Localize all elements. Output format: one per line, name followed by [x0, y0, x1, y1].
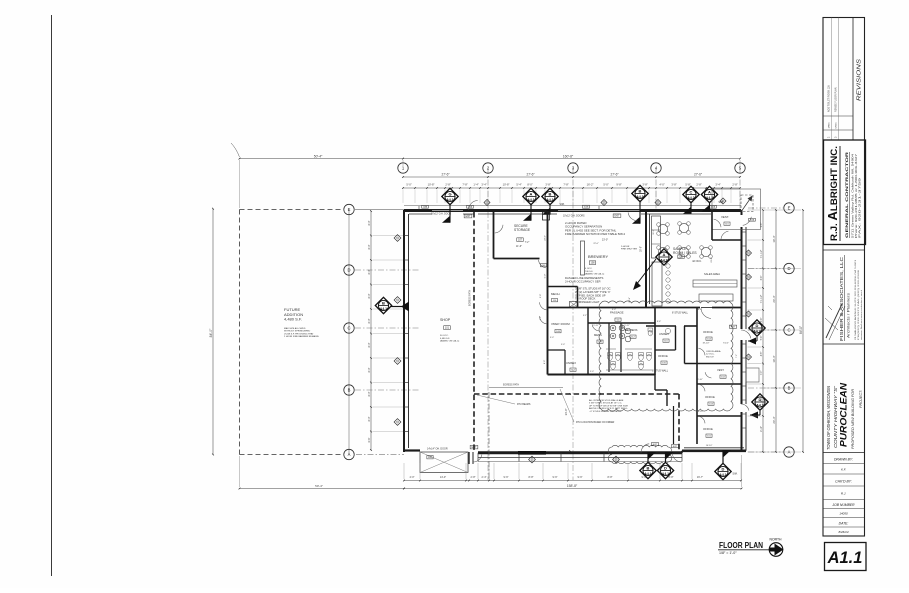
section marker B/A4.1 SIM — [542, 188, 558, 214]
wall: mech top — [548, 286, 578, 288]
wall: unisex divider — [548, 350, 566, 375]
svg-text:A: A — [530, 191, 533, 196]
wall: top exterior — [404, 209, 741, 212]
canopy slope arrow — [742, 196, 753, 211]
svg-text:RTU BEAMS: RTU BEAMS — [517, 403, 531, 406]
mech label — [551, 292, 561, 296]
door marker D/A4.1 wing — [715, 463, 731, 479]
svg-text:2′-4″: 2′-4″ — [482, 476, 487, 479]
svg-text:E: E — [788, 206, 791, 211]
svg-text:EXIT: EXIT — [465, 216, 471, 218]
leader curl top-left — [231, 143, 240, 157]
marker D/A4.2 upper — [749, 320, 765, 336]
door tag 108B — [422, 205, 429, 208]
svg-text:9′-0″: 9′-0″ — [550, 337, 554, 339]
svg-text:42 OCC.: 42 OCC. — [692, 260, 702, 263]
right dim string grid — [772, 209, 777, 453]
svg-text:STORAGE: STORAGE — [514, 228, 531, 232]
svg-text:- 6″ STUDS WHERE INDICATED: - 6″ STUDS WHERE INDICATED — [589, 410, 622, 413]
wall: top OH door opening sills — [432, 210, 640, 212]
svg-text:SIM.: SIM. — [732, 473, 737, 476]
sheet left border line — [51, 15, 53, 576]
svg-text:TO ROOF DECK: TO ROOF DECK — [575, 297, 596, 301]
svg-text:4,480 S.F.: 4,480 S.F. — [440, 338, 450, 340]
east wall door arcs — [741, 330, 751, 338]
svg-text:B: B — [348, 388, 351, 393]
svg-text:PROPOSED NEW BUILDING FOR: PROPOSED NEW BUILDING FOR — [851, 389, 855, 449]
door tag 104A — [467, 205, 474, 208]
door arc top wall brewery — [628, 212, 638, 221]
door arc sales south — [701, 308, 712, 319]
storefront diamonds — [529, 456, 536, 463]
svg-text:A4.1: A4.1 — [446, 198, 453, 202]
svg-text:20′-4″: 20′-4″ — [772, 295, 776, 302]
albright box — [824, 140, 866, 245]
svg-text:B: B — [382, 300, 385, 305]
svg-text:8′-8″: 8′-8″ — [529, 476, 534, 479]
svg-text:1/8/15: 1/8/15 — [829, 122, 831, 129]
exterior stoop right — [746, 368, 759, 382]
svg-text:R.J. ALBRIGHT INC.: R.J. ALBRIGHT INC. — [826, 146, 840, 241]
unisex label right — [659, 332, 669, 336]
svg-text:5′-10″: 5′-10″ — [697, 379, 703, 381]
svg-text:ALL INTERIOR STUD WALLS ARE: ALL INTERIOR STUD WALLS ARE — [589, 399, 624, 402]
brewery counter — [652, 216, 661, 258]
svg-text:5′-0″: 5′-0″ — [540, 294, 542, 298]
svg-text:B: B — [647, 465, 650, 470]
svg-text:SIM.: SIM. — [559, 202, 565, 206]
svg-text:REVISE FLOOR PLAN: REVISE FLOOR PLAN — [835, 87, 838, 112]
wall: core west full — [543, 211, 550, 375]
interior dim 34'-0" — [564, 393, 571, 452]
svg-text:(7,068 S.F. PROVIDED) THAT: (7,068 S.F. PROVIDED) THAT — [284, 332, 314, 335]
svg-text:5′-8″: 5′-8″ — [685, 182, 690, 186]
2-hour separation dashed vertical east — [678, 394, 680, 450]
secure storage entry door arc — [495, 225, 503, 233]
stud wall note — [589, 399, 628, 413]
revision table lines — [823, 18, 865, 141]
svg-text:A4.3: A4.3 — [636, 195, 643, 199]
svg-text:SALES AREA: SALES AREA — [704, 272, 720, 276]
svg-text:50′-4″: 50′-4″ — [314, 154, 323, 158]
brewery label — [588, 254, 608, 259]
svg-text:VEST.: VEST. — [721, 215, 729, 219]
svg-text:104B: 104B — [584, 207, 589, 209]
svg-text:5′-0″: 5′-0″ — [590, 371, 594, 373]
svg-text:A: A — [663, 252, 666, 257]
svg-text:A1.1: A1.1 — [827, 549, 863, 567]
svg-text:E: E — [348, 207, 351, 212]
wall: restroom verticals — [588, 308, 655, 376]
svg-text:8′-8″: 8′-8″ — [608, 476, 613, 479]
svg-text:W/ (2) LAYERS 5/8″ TYPE ‘X’: W/ (2) LAYERS 5/8″ TYPE ‘X’ — [575, 290, 611, 294]
svg-text:8′-0″: 8′-0″ — [368, 367, 371, 372]
svg-text:8′-0″: 8′-0″ — [368, 416, 371, 421]
canopy outline top-right — [712, 189, 761, 230]
svg-text:10′-8″: 10′-8″ — [428, 182, 435, 186]
wall: unisex south — [655, 349, 676, 351]
info rows divider — [823, 452, 865, 454]
svg-text:MAX SIZE ALLOWED: MAX SIZE ALLOWED — [284, 327, 306, 330]
left grid bubbles — [344, 204, 354, 214]
svg-text:C: C — [690, 189, 693, 194]
unisex fixtures — [648, 328, 671, 336]
left overall vertical dimension 84'-0" — [209, 208, 214, 456]
svg-text:4′-0″: 4′-0″ — [410, 476, 415, 479]
marker D/A4.2 lower — [752, 394, 768, 410]
grid dimension line 27'-6" bays — [402, 173, 741, 178]
wall: sales south / stud wall — [646, 307, 742, 309]
albright contractor — [844, 152, 850, 238]
svg-text:FIRE BARRIER NOTATION PER TABL: FIRE BARRIER NOTATION PER TABLE 508.4 — [565, 232, 625, 236]
title block outer frame — [823, 18, 865, 537]
door marker D/A4.1 bottom — [657, 462, 673, 478]
svg-text:16′-7″: 16′-7″ — [697, 476, 703, 479]
boxed label 104B — [583, 205, 590, 208]
svg-text:1′-4″: 1′-4″ — [473, 182, 478, 186]
grid centerlines dashed — [487, 168, 489, 212]
svg-text:7′-0″: 7′-0″ — [651, 331, 653, 335]
svg-text:NORTH: NORTH — [770, 538, 783, 542]
2-hour separation dashed horizontal — [474, 393, 679, 395]
left grid dash leaders — [355, 269, 420, 271]
svg-text:107: 107 — [518, 239, 523, 242]
svg-text:B: B — [549, 191, 552, 196]
west wall panel diamonds — [394, 235, 401, 242]
svg-text:7′-8″: 7′-8″ — [462, 182, 467, 186]
wall: unisex office top — [646, 325, 697, 327]
svg-text:5′-0″: 5′-0″ — [561, 344, 565, 346]
door arc top wall shop — [469, 201, 478, 211]
svg-text:14′-0″: 14′-0″ — [440, 476, 446, 479]
svg-text:23′-0″: 23′-0″ — [545, 235, 547, 241]
section marker G/A4.1 — [442, 188, 458, 222]
right grid bubbles — [784, 203, 794, 213]
interior tiny dims texture — [540, 229, 738, 447]
svg-text:7′-8″: 7′-8″ — [563, 182, 568, 186]
svg-text:A4.1: A4.1 — [546, 198, 553, 202]
svg-text:A4.3: A4.3 — [660, 258, 667, 262]
svg-text:VEST.: VEST. — [717, 368, 724, 372]
svg-text:2′-8″: 2′-8″ — [445, 182, 450, 186]
svg-text:OFFICE AREA: OFFICE AREA — [706, 350, 721, 353]
svg-text:D: D — [756, 323, 759, 328]
svg-text:84′-0″: 84′-0″ — [209, 328, 213, 337]
svg-text:EXIT: EXIT — [614, 216, 620, 218]
svg-text:7′-1 1/2″: 7′-1 1/2″ — [761, 295, 763, 304]
office 103 label — [705, 395, 715, 399]
svg-text:D: D — [787, 266, 790, 271]
svg-text:9′-1/2″: 9′-1/2″ — [723, 343, 729, 345]
svg-text:9′-6″: 9′-6″ — [642, 476, 647, 479]
svg-text:FAX: 920-231-3759: FAX: 920-231-3759 — [859, 176, 862, 238]
office area label — [706, 350, 721, 358]
svg-text:3′-8″: 3′-8″ — [545, 182, 550, 186]
svg-text:PUROCLEAN: PUROCLEAN — [839, 382, 849, 447]
grid 3 centerline through building — [572, 212, 574, 480]
svg-text:D: D — [664, 465, 667, 470]
future addition dashed outline — [240, 210, 405, 455]
svg-text:EXIT: EXIT — [731, 327, 736, 329]
svg-text:A: A — [708, 189, 711, 194]
right grid dash top — [748, 207, 783, 209]
svg-text:5′-11″: 5′-11″ — [593, 325, 598, 327]
svg-text:11′-2″: 11′-2″ — [653, 229, 655, 234]
svg-text:16′-10″: 16′-10″ — [706, 445, 713, 447]
exit box wing — [671, 445, 678, 448]
svg-text:9′-8″: 9′-8″ — [616, 182, 621, 186]
vestibule doors — [714, 219, 721, 227]
svg-text:9′-2″: 9′-2″ — [540, 316, 542, 320]
OH door bay bottom-left — [420, 452, 468, 473]
svg-text:K.F.: K.F. — [841, 468, 846, 472]
svg-text:1/8″ = 1′-0″: 1/8″ = 1′-0″ — [719, 551, 737, 555]
future addition label — [284, 307, 303, 322]
svg-text:16′x12′ O.H. DOOR: 16′x12′ O.H. DOOR — [431, 214, 451, 216]
svg-text:ABOVE CEILING W/ R-11 BATT INS: ABOVE CEILING W/ R-11 BATT INSUL. — [589, 407, 628, 410]
svg-text:4′-8″: 4′-8″ — [761, 352, 763, 357]
passage label — [610, 311, 624, 315]
svg-text:108B: 108B — [423, 206, 428, 208]
office 105 label — [658, 354, 668, 358]
RTU beams note — [517, 403, 531, 406]
svg-text:7′-1 1/2″: 7′-1 1/2″ — [761, 250, 763, 259]
svg-text:GYP BD. EACH SIDE UP: GYP BD. EACH SIDE UP — [575, 293, 606, 297]
svg-text:7′-0″: 7′-0″ — [761, 371, 763, 376]
prep room label — [552, 322, 571, 326]
unisex label left — [566, 361, 576, 365]
svg-text:9′-6″: 9′-6″ — [553, 476, 558, 479]
svg-text:18′-10″: 18′-10″ — [697, 411, 704, 413]
svg-text:22′-0″: 22′-0″ — [593, 243, 599, 245]
shop label — [440, 318, 451, 322]
svg-text:7′-2″: 7′-2″ — [736, 354, 738, 358]
svg-text:A: A — [788, 450, 791, 455]
svg-text:(BASED ON CALC): (BASED ON CALC) — [440, 340, 459, 343]
svg-text:A4.2: A4.2 — [756, 403, 763, 407]
svg-text:18′-1/2″: 18′-1/2″ — [702, 343, 709, 345]
wall: passage top — [548, 307, 647, 309]
svg-text:2-HOUR OCCUPANCY SEP.: 2-HOUR OCCUPANCY SEP. — [565, 279, 601, 283]
svg-text:3 5/8″ STEEL STUDS AT 16″ O.C.: 3 5/8″ STEEL STUDS AT 16″ O.C. — [589, 402, 623, 405]
future addition note — [284, 327, 319, 338]
svg-text:8′-0″: 8′-0″ — [368, 342, 371, 347]
wall: secure storage west — [493, 211, 495, 259]
svg-text:4,480 S.F.: 4,480 S.F. — [284, 317, 302, 322]
svg-text:C: C — [347, 326, 350, 331]
svg-text:FISHER & ASSOCIATES, LLC: FISHER & ASSOCIATES, LLC — [839, 256, 844, 341]
revisions divider — [852, 18, 854, 141]
fisher divider — [823, 249, 865, 251]
svg-text:JOB NUMBER: JOB NUMBER — [831, 503, 855, 507]
svg-text:5′-4″: 5′-4″ — [761, 336, 763, 341]
svg-text:ADD TOILET ROOM 116: ADD TOILET ROOM 116 — [828, 85, 831, 112]
svg-text:160′-8″: 160′-8″ — [563, 154, 574, 158]
svg-text:20′-4″: 20′-4″ — [772, 416, 776, 423]
wall: bottom storefront band — [478, 453, 682, 462]
svg-text:2′-8″: 2′-8″ — [732, 182, 737, 186]
svg-text:3′-8″: 3′-8″ — [671, 182, 676, 186]
svg-text:960 S.F.: 960 S.F. — [706, 356, 714, 358]
svg-text:8′-0″: 8′-0″ — [368, 391, 371, 396]
svg-text:A4.1: A4.1 — [380, 307, 387, 311]
restroom sink clusters — [610, 325, 631, 342]
toilet fixtures — [606, 349, 652, 370]
section marker A/A4.2 — [701, 186, 717, 211]
top wall window tick — [419, 206, 599, 210]
OH door label top-right — [563, 216, 585, 218]
svg-text:RTU LOCATION BASED ON ORDER: RTU LOCATION BASED ON ORDER — [576, 421, 615, 424]
egress dashed line vertical — [488, 392, 490, 481]
svg-text:9′-10″: 9′-10″ — [761, 426, 763, 432]
svg-text:2 HOUR FIRE BARRIER REMAINS: 2 HOUR FIRE BARRIER REMAINS — [284, 335, 319, 338]
fisher logo — [825, 304, 845, 340]
top sub dimension string — [402, 187, 741, 189]
RTU location note — [576, 421, 615, 424]
left witness lines — [373, 236, 404, 432]
wall: vestibule — [712, 210, 742, 240]
top witness lines — [240, 160, 741, 208]
egress path leader horizontal — [489, 387, 563, 389]
svg-text:8′-0″: 8′-0″ — [368, 220, 371, 225]
svg-text:11′-6″: 11′-6″ — [516, 245, 522, 248]
section marker A/A4.3 interior — [656, 249, 672, 265]
svg-text:6′-4″: 6′-4″ — [761, 318, 763, 323]
svg-text:27′-6″: 27′-6″ — [694, 173, 703, 177]
right grid dash leaders — [748, 268, 783, 270]
svg-text:158′-8″: 158′-8″ — [567, 484, 578, 488]
svg-text:DATE:: DATE: — [839, 522, 849, 526]
wall: office wing west — [654, 375, 656, 391]
wall: east exterior — [742, 210, 747, 451]
secure storage door arc — [539, 260, 546, 268]
office 104 label — [703, 330, 713, 334]
section marker A/A4.1 — [523, 188, 539, 220]
svg-text:A: A — [348, 452, 351, 457]
svg-text:8′-0″: 8′-0″ — [544, 360, 546, 364]
wall: offices column — [685, 308, 742, 445]
svg-text:REVISIONS: REVISIONS — [857, 58, 863, 101]
sample room label — [673, 247, 697, 255]
2-hour separation dashed line — [473, 212, 475, 452]
svg-text:8′-6″: 8′-6″ — [657, 321, 661, 323]
svg-text:UNISEX: UNISEX — [566, 361, 576, 365]
svg-text:9′-6″: 9′-6″ — [504, 476, 509, 479]
x-box fixture mech wall — [570, 302, 579, 308]
grid bubbles 1-5 — [398, 163, 408, 173]
svg-text:3′-4″: 3′-4″ — [481, 182, 486, 186]
svg-text:4′-0″: 4′-0″ — [612, 309, 616, 311]
stud construction note — [575, 287, 611, 305]
mens label — [594, 333, 602, 337]
canopy dashed square — [741, 195, 753, 212]
wall: top outer face line — [404, 205, 741, 207]
east wall door gaps — [739, 329, 748, 412]
svg-text:PH(920) 233-5973 FAX (920) 23: PH(920) 233-5973 FAX (920) 233-0936 — [857, 268, 860, 340]
svg-text:8′-8″: 8′-8″ — [669, 476, 674, 479]
door tag 101B — [710, 205, 717, 208]
wall: bottom west corner — [404, 449, 420, 451]
svg-text:27′-6″: 27′-6″ — [610, 173, 619, 177]
bottom overall 158'-8" — [403, 484, 742, 489]
office doors — [698, 348, 705, 355]
exit door jamb at bay — [469, 452, 473, 464]
svg-text:8′-0″: 8′-0″ — [368, 318, 371, 323]
OH door bay label — [427, 448, 448, 451]
north arrow — [769, 538, 783, 557]
svg-text:19′-4″: 19′-4″ — [772, 235, 776, 242]
svg-text:DRAWN BY:: DRAWN BY: — [834, 458, 853, 462]
svg-text:PREP. ROOM: PREP. ROOM — [552, 322, 571, 326]
svg-text:OFFICE: OFFICE — [658, 354, 668, 358]
svg-text:9′-6″: 9′-6″ — [761, 223, 763, 228]
marker B/A4.1 shop — [375, 297, 391, 313]
svg-text:21 WAUGOO AVENUE SUITE 300 OS: 21 WAUGOO AVENUE SUITE 300 OSHKOSH WI 54… — [854, 259, 857, 340]
svg-text:www.fisherassociates.net: www.fisherassociates.net — [860, 289, 863, 340]
svg-text:B: B — [639, 188, 642, 193]
2-hour rated note — [565, 221, 625, 236]
svg-text:8′-0″: 8′-0″ — [368, 293, 371, 298]
svg-text:3′-1″: 3′-1″ — [583, 315, 587, 317]
svg-text:5′-4″: 5′-4″ — [516, 182, 521, 186]
svg-text:3′-4″: 3′-4″ — [715, 182, 720, 186]
svg-text:B: B — [788, 386, 791, 391]
svg-text:3 5/8″ STL STUDS AT 16″ OC: 3 5/8″ STL STUDS AT 16″ OC — [575, 287, 611, 291]
east wall diamonds — [746, 250, 752, 256]
svg-text:4′-0″: 4′-0″ — [659, 182, 664, 186]
svg-text:COUNTY HIGHWAY “S”: COUNTY HIGHWAY “S” — [833, 385, 838, 448]
svg-text:UNISEX: UNISEX — [659, 332, 669, 336]
svg-text:8/26/14: 8/26/14 — [838, 530, 848, 534]
secure storage label — [514, 224, 531, 232]
svg-text:23′-8″: 23′-8″ — [711, 257, 713, 263]
svg-text:27′-6″: 27′-6″ — [526, 173, 535, 177]
door arcs core west wall — [540, 302, 547, 310]
svg-text:8′-0″: 8′-0″ — [527, 182, 532, 186]
svg-text:6′ STUD WALL: 6′ STUD WALL — [652, 370, 669, 373]
svg-text:C: C — [787, 328, 790, 333]
svg-text:27′-6″: 27′-6″ — [441, 173, 450, 177]
svg-text:6′-8″: 6′-8″ — [698, 309, 702, 311]
svg-text:8′ STUD WALL: 8′ STUD WALL — [672, 312, 689, 315]
wall type diamonds top — [484, 200, 490, 206]
section marker C/A4.2 — [683, 186, 699, 213]
svg-text:EGRESS PATH: EGRESS PATH — [503, 384, 519, 387]
svg-text:12 OCC.: 12 OCC. — [706, 354, 715, 356]
svg-text:3′-8″: 3′-8″ — [642, 182, 647, 186]
svg-text:34′-0″: 34′-0″ — [564, 409, 568, 416]
svg-text:50 OCC.: 50 OCC. — [440, 335, 449, 337]
svg-text:PASSAGE: PASSAGE — [610, 311, 624, 315]
svg-text:6′-6″: 6′-6″ — [368, 437, 371, 442]
svg-text:14050: 14050 — [839, 512, 848, 516]
brewery pier — [581, 241, 585, 275]
svg-text:Architects / Planners: Architects / Planners — [847, 293, 851, 338]
left vertical dim string — [368, 210, 372, 451]
restroom doors — [592, 324, 599, 331]
OH door label top-left — [431, 214, 451, 216]
fire shutter note — [621, 246, 637, 251]
svg-text:5′-0″: 5′-0″ — [603, 182, 608, 186]
svg-text:OFFICE: OFFICE — [703, 330, 713, 334]
tables with chairs — [657, 222, 713, 259]
sheet number box — [825, 543, 867, 571]
right witness lines — [748, 210, 802, 452]
wall: restroom top — [588, 322, 655, 324]
svg-text:108: 108 — [591, 262, 596, 265]
svg-text:EGRESS PATH: EGRESS PATH — [469, 290, 472, 306]
right overall dim 84'-0" — [799, 209, 804, 453]
